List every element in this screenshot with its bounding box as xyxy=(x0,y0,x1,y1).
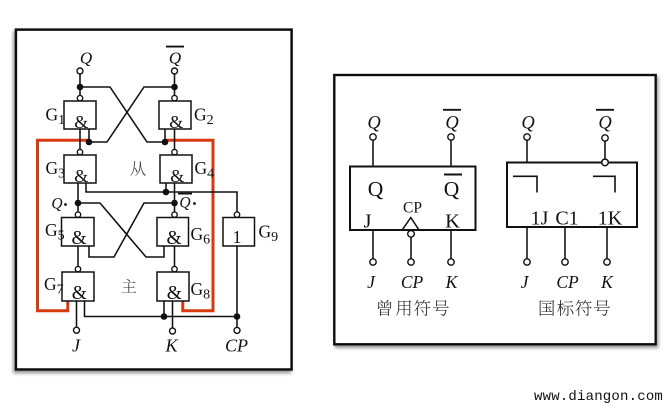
wire: red feedback Qbar to G7 (highlight) xyxy=(38,140,90,310)
svg-text:&: & xyxy=(74,112,88,132)
svg-text:Q: Q xyxy=(367,114,381,134)
junction node Q xyxy=(77,84,84,91)
gate G5 (NAND) xyxy=(62,212,95,249)
junction CP / G9 xyxy=(234,313,241,320)
U1 clock bubble xyxy=(408,231,415,238)
svg-text:&: & xyxy=(71,228,86,249)
terminal CP xyxy=(234,327,240,333)
U2 wire J xyxy=(526,227,528,259)
wire: G2 input from G4 output xyxy=(174,129,176,150)
svg-text:Q: Q xyxy=(169,49,181,68)
gate G4 (NAND) xyxy=(160,149,192,186)
svg-text:K: K xyxy=(445,272,459,292)
label Qp xyxy=(51,196,67,213)
wire: G4 input from G6 output (node Qbarp) xyxy=(174,183,176,212)
U2 wire K xyxy=(606,227,608,259)
U2 terminal K xyxy=(604,259,610,265)
gate G7 (NAND) xyxy=(62,266,94,304)
U2 terminal CP xyxy=(562,259,568,265)
U2 postponed output mark (right) xyxy=(593,176,615,192)
U1 pin Qbar label xyxy=(444,175,462,202)
junction G2 input / feedback xyxy=(162,139,169,146)
svg-text:J: J xyxy=(72,336,81,356)
svg-text:1K: 1K xyxy=(598,208,623,230)
svg-text:CP: CP xyxy=(401,272,424,292)
svg-text:1J: 1J xyxy=(531,208,549,230)
label zhu (master) xyxy=(122,279,136,293)
wire: J input to G7 xyxy=(76,301,78,327)
gate G3 (NAND) xyxy=(64,149,96,186)
flip-flop symbol U2 (IEC) body xyxy=(507,163,637,228)
gate G6 (NAND) xyxy=(157,212,189,249)
wire: Q to G2 input (cross) xyxy=(80,87,165,142)
wire: G1 input from Qbar xyxy=(88,129,90,142)
svg-text:C1: C1 xyxy=(555,208,578,230)
svg-text:J: J xyxy=(521,272,530,292)
U2 terminal J xyxy=(524,259,530,265)
svg-text:CP: CP xyxy=(556,272,579,292)
wire: CP input to G8 xyxy=(163,301,165,317)
U1 terminal Qbar xyxy=(448,134,454,140)
wire: G1 input from G3 output xyxy=(79,129,81,150)
svg-text:K: K xyxy=(600,272,614,292)
svg-text:K: K xyxy=(164,336,178,356)
U2 inversion bubble Qbar xyxy=(602,159,609,166)
wire: G5 input from G7 output xyxy=(77,246,79,266)
U1 wire Qbar xyxy=(450,140,452,166)
wire: G2 input from Q xyxy=(164,129,166,142)
wire: K input to G8 xyxy=(172,301,174,328)
svg-text:&: & xyxy=(167,283,182,304)
terminal J xyxy=(74,327,80,333)
svg-text:J: J xyxy=(367,272,376,292)
gate G2 (NAND) xyxy=(159,95,191,132)
svg-text:Q: Q xyxy=(444,177,460,201)
svg-text:www.diangon.com: www.diangon.com xyxy=(534,389,663,405)
svg-text:1: 1 xyxy=(233,227,242,247)
wire: red feedback Q to G8 (highlight) xyxy=(165,140,213,310)
svg-text:J: J xyxy=(364,211,372,233)
wire: Qbarp to G5 input (cross) xyxy=(89,203,175,257)
wire: G3 input from G5 output (node Qp) xyxy=(77,183,79,212)
U2 postponed output mark (left) xyxy=(513,176,537,192)
U2 wire Q xyxy=(526,140,528,162)
U1 clock edge triangle xyxy=(402,218,419,230)
terminal K xyxy=(170,328,176,334)
label Qbar xyxy=(166,47,184,68)
caption legacy symbol xyxy=(378,300,391,316)
U1 wire J xyxy=(372,230,374,259)
svg-text:Q: Q xyxy=(51,196,62,213)
U2 wire CP xyxy=(564,227,566,259)
svg-text:Q: Q xyxy=(368,177,384,201)
U1 terminal Q xyxy=(370,134,376,140)
U1 terminal J xyxy=(370,259,376,265)
U2 terminal Q xyxy=(524,134,530,140)
wire: CP terminal stub xyxy=(236,317,238,328)
label cong (slave) xyxy=(130,161,145,176)
wire: Qbar to G1 input (cross) xyxy=(89,87,175,142)
right panel frame xyxy=(334,75,655,344)
wire: Qp to G6 input (cross) xyxy=(78,203,164,257)
svg-text:&: & xyxy=(169,112,183,132)
svg-text:Q: Q xyxy=(445,114,459,134)
gate G1 (NAND) xyxy=(64,95,96,132)
wire: G3 input from CPbar xyxy=(86,183,237,212)
gate G9 (inverter) xyxy=(223,212,255,247)
junction G1 input / feedback xyxy=(86,139,93,146)
caption IEC symbol xyxy=(540,300,555,316)
terminal Qbar output xyxy=(172,68,178,96)
junction CP / G8 xyxy=(161,313,168,320)
wire: G4 input from CPbar xyxy=(165,183,167,192)
svg-text:CP: CP xyxy=(403,200,422,217)
U1 wire K xyxy=(450,230,452,259)
wire: G6 input from G8 output xyxy=(174,246,176,266)
terminal Q output xyxy=(77,68,83,96)
left panel frame xyxy=(16,30,292,370)
gate G8 (NAND) xyxy=(157,266,189,304)
svg-text:Q: Q xyxy=(598,114,612,134)
wire: CP to G9 input xyxy=(236,246,238,317)
U1 terminal K xyxy=(448,259,454,265)
svg-text:Q: Q xyxy=(179,195,190,212)
U1 wire Q xyxy=(372,140,374,166)
U2 wire Qbar xyxy=(604,141,606,159)
U2 terminal Qbar xyxy=(602,135,608,141)
U1 terminal CP xyxy=(408,259,414,265)
svg-text:Q: Q xyxy=(521,114,535,134)
svg-text:K: K xyxy=(445,211,460,233)
U1 label Qbar xyxy=(443,110,461,134)
label Qbarp xyxy=(178,194,196,212)
U1 wire CP xyxy=(410,237,412,259)
svg-text:Q: Q xyxy=(80,49,92,68)
junction node Qp xyxy=(75,200,82,207)
svg-text:CP: CP xyxy=(225,336,248,356)
svg-text:&: & xyxy=(170,166,184,186)
wire: CP input to G7 xyxy=(85,301,238,317)
junction CPbar / G4 xyxy=(163,189,170,196)
U2 label Qbar xyxy=(596,110,614,134)
flip-flop symbol U1 (legacy) body xyxy=(350,167,476,231)
junction node Qbarp xyxy=(171,200,178,207)
junction node Qbar xyxy=(171,84,178,91)
